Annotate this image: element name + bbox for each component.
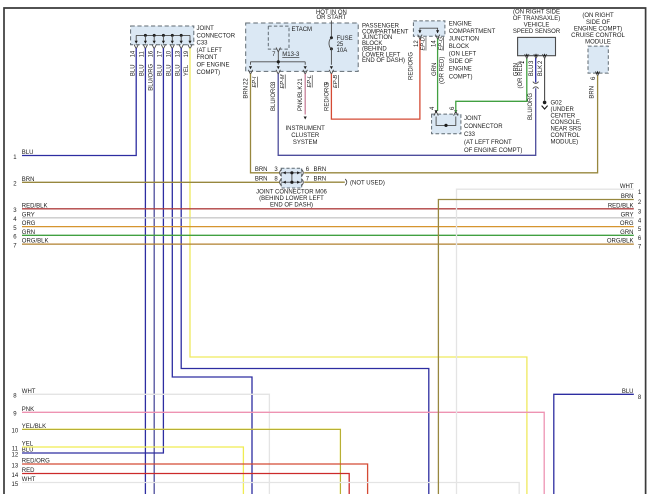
- svg-text:(NOT USED): (NOT USED): [350, 180, 385, 186]
- svg-text:EP-G: EP-G: [438, 36, 444, 50]
- svg-text:EP-B: EP-B: [333, 75, 339, 88]
- C33 internal bus with junctions and pins: [134, 34, 192, 49]
- svg-text:2: 2: [638, 200, 642, 206]
- wire PNK/BLK from pin 21 to instrument cluster: [304, 74, 306, 115]
- wire YEL circuit 11 right then down: [22, 447, 243, 494]
- svg-text:19: 19: [184, 50, 190, 57]
- wire BRN stub from M06 pin 7 not used: [304, 181, 345, 183]
- svg-text:3: 3: [13, 208, 17, 214]
- svg-text:10: 10: [12, 429, 19, 435]
- left edge circuit numbers and colour labels: [12, 150, 51, 488]
- svg-text:12: 12: [12, 452, 19, 458]
- wire GRN circuit 6 across page: [22, 234, 634, 236]
- svg-text:7: 7: [13, 244, 17, 250]
- wire RED/ORG circuit 13 right then down: [22, 464, 368, 494]
- svg-text:21: 21: [298, 78, 304, 85]
- svg-text:BLU: BLU: [175, 64, 181, 76]
- wire GRN (OR RED) from engine junction pin 14 to joint connector C33 pin 4: [437, 39, 439, 111]
- cruise control module box: [588, 46, 608, 73]
- svg-text:4: 4: [13, 217, 17, 223]
- svg-text:16: 16: [148, 50, 154, 57]
- wire PNK circuit 9 right then down: [22, 412, 544, 494]
- svg-text:8: 8: [638, 395, 642, 401]
- svg-text:PASSENGERCOMPARTMENTJUNCTIONBL: PASSENGERCOMPARTMENTJUNCTIONBLOCK(BEHIND…: [362, 24, 409, 65]
- svg-text:3: 3: [529, 60, 535, 64]
- svg-text:(ON RIGHT SIDEOF TRANSAXLE)VEH: (ON RIGHT SIDEOF TRANSAXLE)VEHICLESPEED …: [513, 10, 561, 36]
- svg-text:EP-M: EP-M: [280, 74, 286, 88]
- wire BLU from C33 pin 14 to left edge circuit 1: [22, 48, 136, 155]
- not used terminal bracket: [345, 179, 347, 185]
- svg-text:ORG: ORG: [620, 221, 634, 227]
- svg-text:6: 6: [13, 235, 17, 241]
- svg-text:5: 5: [13, 226, 17, 232]
- joint connector C33 right box: [432, 114, 461, 134]
- C33 wire colour labels: [130, 63, 190, 90]
- svg-text:9: 9: [13, 412, 17, 418]
- right edge circuit numbers and colour labels: [607, 184, 642, 401]
- wire RED/ORG from pin 9 to engine compartment junction block pin 12: [331, 39, 420, 120]
- svg-text:(OR RED): (OR RED): [440, 57, 446, 84]
- wire BRN from cruise module pin 6 to joint connector M06 pin 6: [304, 76, 597, 173]
- svg-text:PNK/BLK: PNK/BLK: [298, 86, 304, 111]
- speed sensor pin sockets 1 3 2: [525, 53, 547, 58]
- connector cavity ids EP-D EP-G: [421, 36, 445, 50]
- wire BLU circuit 8 right edge then down: [554, 394, 634, 494]
- wire BLU/ORG from pin 3 to vehicle speed sensor pin 3: [278, 74, 536, 156]
- wire BRN circuit 2 right edge then down: [438, 200, 633, 494]
- svg-text:EP-L: EP-L: [307, 75, 313, 87]
- arrow into instrument cluster system: [304, 117, 307, 120]
- wire YEL from C33 pin 19 down right down: [190, 48, 527, 494]
- svg-text:BLU: BLU: [167, 64, 173, 76]
- svg-text:11: 11: [140, 51, 146, 58]
- wire GRY circuit 4 across page: [22, 217, 634, 219]
- svg-text:ENGINECOMPARTMENTJUNCTIONBLOCK: ENGINECOMPARTMENTJUNCTIONBLOCK(ON LEFTSI…: [449, 21, 496, 80]
- wire colour labels BRN BLU/ORG PNK/BLK RED/ORG: [244, 83, 331, 111]
- wire BLU from speed sensor pin 3: [535, 58, 537, 83]
- connector cavity ids EP-I EP-M EP-L EP-B: [252, 74, 339, 88]
- joint connector C33 box (at left front of engine compt): [131, 26, 194, 45]
- svg-text:BRN: BRN: [590, 86, 596, 99]
- wire feed into fuse 25: [330, 21, 332, 37]
- wire BLU from C33 pin 11 down to page bottom: [144, 48, 146, 494]
- svg-text:RED/ORG: RED/ORG: [324, 83, 330, 111]
- svg-text:5: 5: [638, 227, 642, 233]
- wire colour label GRN (OR RED): [432, 57, 446, 84]
- svg-text:15: 15: [12, 482, 19, 488]
- wire YEL/BLK circuit 10 right then down: [22, 429, 340, 494]
- wire WHT circuit 15 right then down: [22, 483, 519, 494]
- svg-text:BLU/ORG: BLU/ORG: [148, 63, 154, 90]
- svg-text:JOINTCONNECTORC33(AT LEFT FRON: JOINTCONNECTORC33(AT LEFT FRONTOF ENGINE…: [464, 116, 522, 154]
- wire colour label GRN (OR RED) pin 1: [514, 61, 525, 88]
- wire BRN from pin 22 to joint connector M06 pin 3: [251, 74, 280, 173]
- svg-text:RED/ORG: RED/ORG: [408, 52, 414, 80]
- ETACM pin7 internal bus to output pins: [249, 52, 307, 70]
- svg-text:4: 4: [638, 218, 642, 224]
- svg-text:BRN: BRN: [255, 167, 268, 173]
- svg-text:2: 2: [538, 60, 544, 64]
- svg-text:14: 14: [12, 473, 19, 479]
- joint connector M06 box: [281, 168, 302, 188]
- svg-text:8: 8: [13, 394, 17, 400]
- wire GRN (OR RED) from C33 pin 6 to vehicle speed sensor pin 1: [456, 58, 527, 112]
- ETACM pin 7 socket: [276, 48, 280, 52]
- inline connector on speed sensor BLU wire: [533, 82, 539, 89]
- C33 pin numbers 14 11 16 17 10 13 19: [130, 50, 190, 57]
- wire ORG/BLK circuit 7 across page: [22, 243, 634, 245]
- svg-text:13: 13: [175, 50, 181, 57]
- svg-text:BLU: BLU: [22, 448, 34, 454]
- svg-text:JOINT CONNECTOR M06(BEHIND LOW: JOINT CONNECTOR M06(BEHIND LOWER LEFTEND…: [256, 190, 327, 209]
- svg-text:22: 22: [244, 78, 250, 85]
- svg-text:INSTRUMENTCLUSTERSYSTEM: INSTRUMENTCLUSTERSYSTEM: [286, 126, 326, 146]
- svg-text:1: 1: [638, 190, 642, 196]
- wire BLK from speed sensor pin 2 to ground G02: [544, 58, 546, 101]
- svg-text:JOINTCONNECTORC33(AT LEFTFRONT: JOINTCONNECTORC33(AT LEFTFRONTOF ENGINEC…: [197, 26, 236, 76]
- wire BRN circuit 2 to M06 pin 8: [22, 181, 279, 183]
- svg-text:EP-D: EP-D: [421, 37, 427, 50]
- svg-text:4: 4: [430, 106, 436, 110]
- svg-text:YEL: YEL: [184, 64, 190, 76]
- wire BLU from C33 pin 10 down then right then down: [172, 48, 252, 494]
- svg-text:BLU: BLU: [140, 64, 146, 76]
- junction block pin sockets 22 3 21 9: [248, 70, 333, 74]
- fuse 25 10A symbol: [329, 36, 333, 69]
- wire BLU from C33 pin 17 to left edge circuit 12: [22, 48, 163, 453]
- wire WHT circuit 8 right then down: [22, 394, 269, 494]
- svg-text:10: 10: [167, 50, 173, 57]
- engine compartment junction block box: [413, 21, 445, 36]
- wire BLU/ORG from C33 pin 16 down to page bottom: [153, 48, 155, 494]
- svg-text:HOT IN ONOR START: HOT IN ONOR START: [316, 10, 347, 21]
- svg-text:RED/BLK: RED/BLK: [608, 203, 634, 209]
- svg-text:(OR RED): (OR RED): [518, 61, 524, 88]
- svg-text:17: 17: [158, 50, 164, 57]
- svg-text:GRY: GRY: [621, 212, 634, 218]
- passenger compartment junction block box: [246, 23, 359, 71]
- svg-text:M13-3: M13-3: [282, 52, 300, 58]
- svg-text:6: 6: [591, 76, 597, 80]
- ground G02 symbol: [542, 101, 548, 109]
- svg-text:6: 6: [450, 106, 456, 110]
- svg-text:BLU: BLU: [22, 150, 34, 156]
- vehicle speed sensor box: [518, 37, 556, 55]
- svg-text:BLK: BLK: [538, 65, 544, 76]
- wire RED/BLK circuit 3 across page: [22, 208, 634, 210]
- svg-text:BLU: BLU: [529, 65, 535, 77]
- svg-text:GRN: GRN: [620, 230, 633, 236]
- svg-text:BLU/ORG: BLU/ORG: [271, 84, 277, 111]
- svg-text:13: 13: [12, 463, 19, 469]
- M06 internal buses junctions and pins: [280, 169, 304, 185]
- svg-text:BLU/ORG: BLU/ORG: [528, 93, 534, 120]
- svg-text:2: 2: [13, 182, 17, 188]
- wire ORG circuit 5 across page: [22, 226, 634, 228]
- svg-text:BLU: BLU: [158, 64, 164, 76]
- svg-text:7: 7: [638, 245, 642, 251]
- engine junction block internal link pins 12-14: [418, 28, 440, 39]
- C33 right internal bus and pins: [434, 110, 458, 127]
- svg-text:G02(UNDERCENTERCONSOLE,NEAR SR: G02(UNDERCENTERCONSOLE,NEAR SRSCONTROLMO…: [551, 101, 582, 146]
- svg-text:12: 12: [414, 40, 420, 47]
- svg-text:ETACM: ETACM: [292, 27, 313, 33]
- wire WHT circuit 1 right edge then down: [457, 189, 634, 494]
- svg-text:6: 6: [638, 236, 642, 242]
- wire BLU from C33 pin 13 down right down: [181, 48, 429, 494]
- svg-text:1: 1: [13, 155, 17, 161]
- cruise module pin 6 socket: [595, 71, 599, 76]
- svg-text:14: 14: [432, 40, 438, 47]
- svg-text:BRN: BRN: [314, 167, 327, 173]
- svg-text:ORG/BLK: ORG/BLK: [607, 239, 634, 245]
- svg-text:EP-I: EP-I: [252, 76, 258, 87]
- wire RED circuit 14 right then down: [22, 474, 349, 494]
- ETACM box: [268, 26, 289, 49]
- svg-text:3: 3: [638, 209, 642, 215]
- svg-text:BRN: BRN: [244, 86, 250, 99]
- svg-text:BLU: BLU: [130, 64, 136, 76]
- svg-text:14: 14: [130, 50, 136, 57]
- svg-text:(ON RIGHTSIDE OFENGINE COMPT)C: (ON RIGHTSIDE OFENGINE COMPT)CRUISE CONT…: [571, 13, 625, 45]
